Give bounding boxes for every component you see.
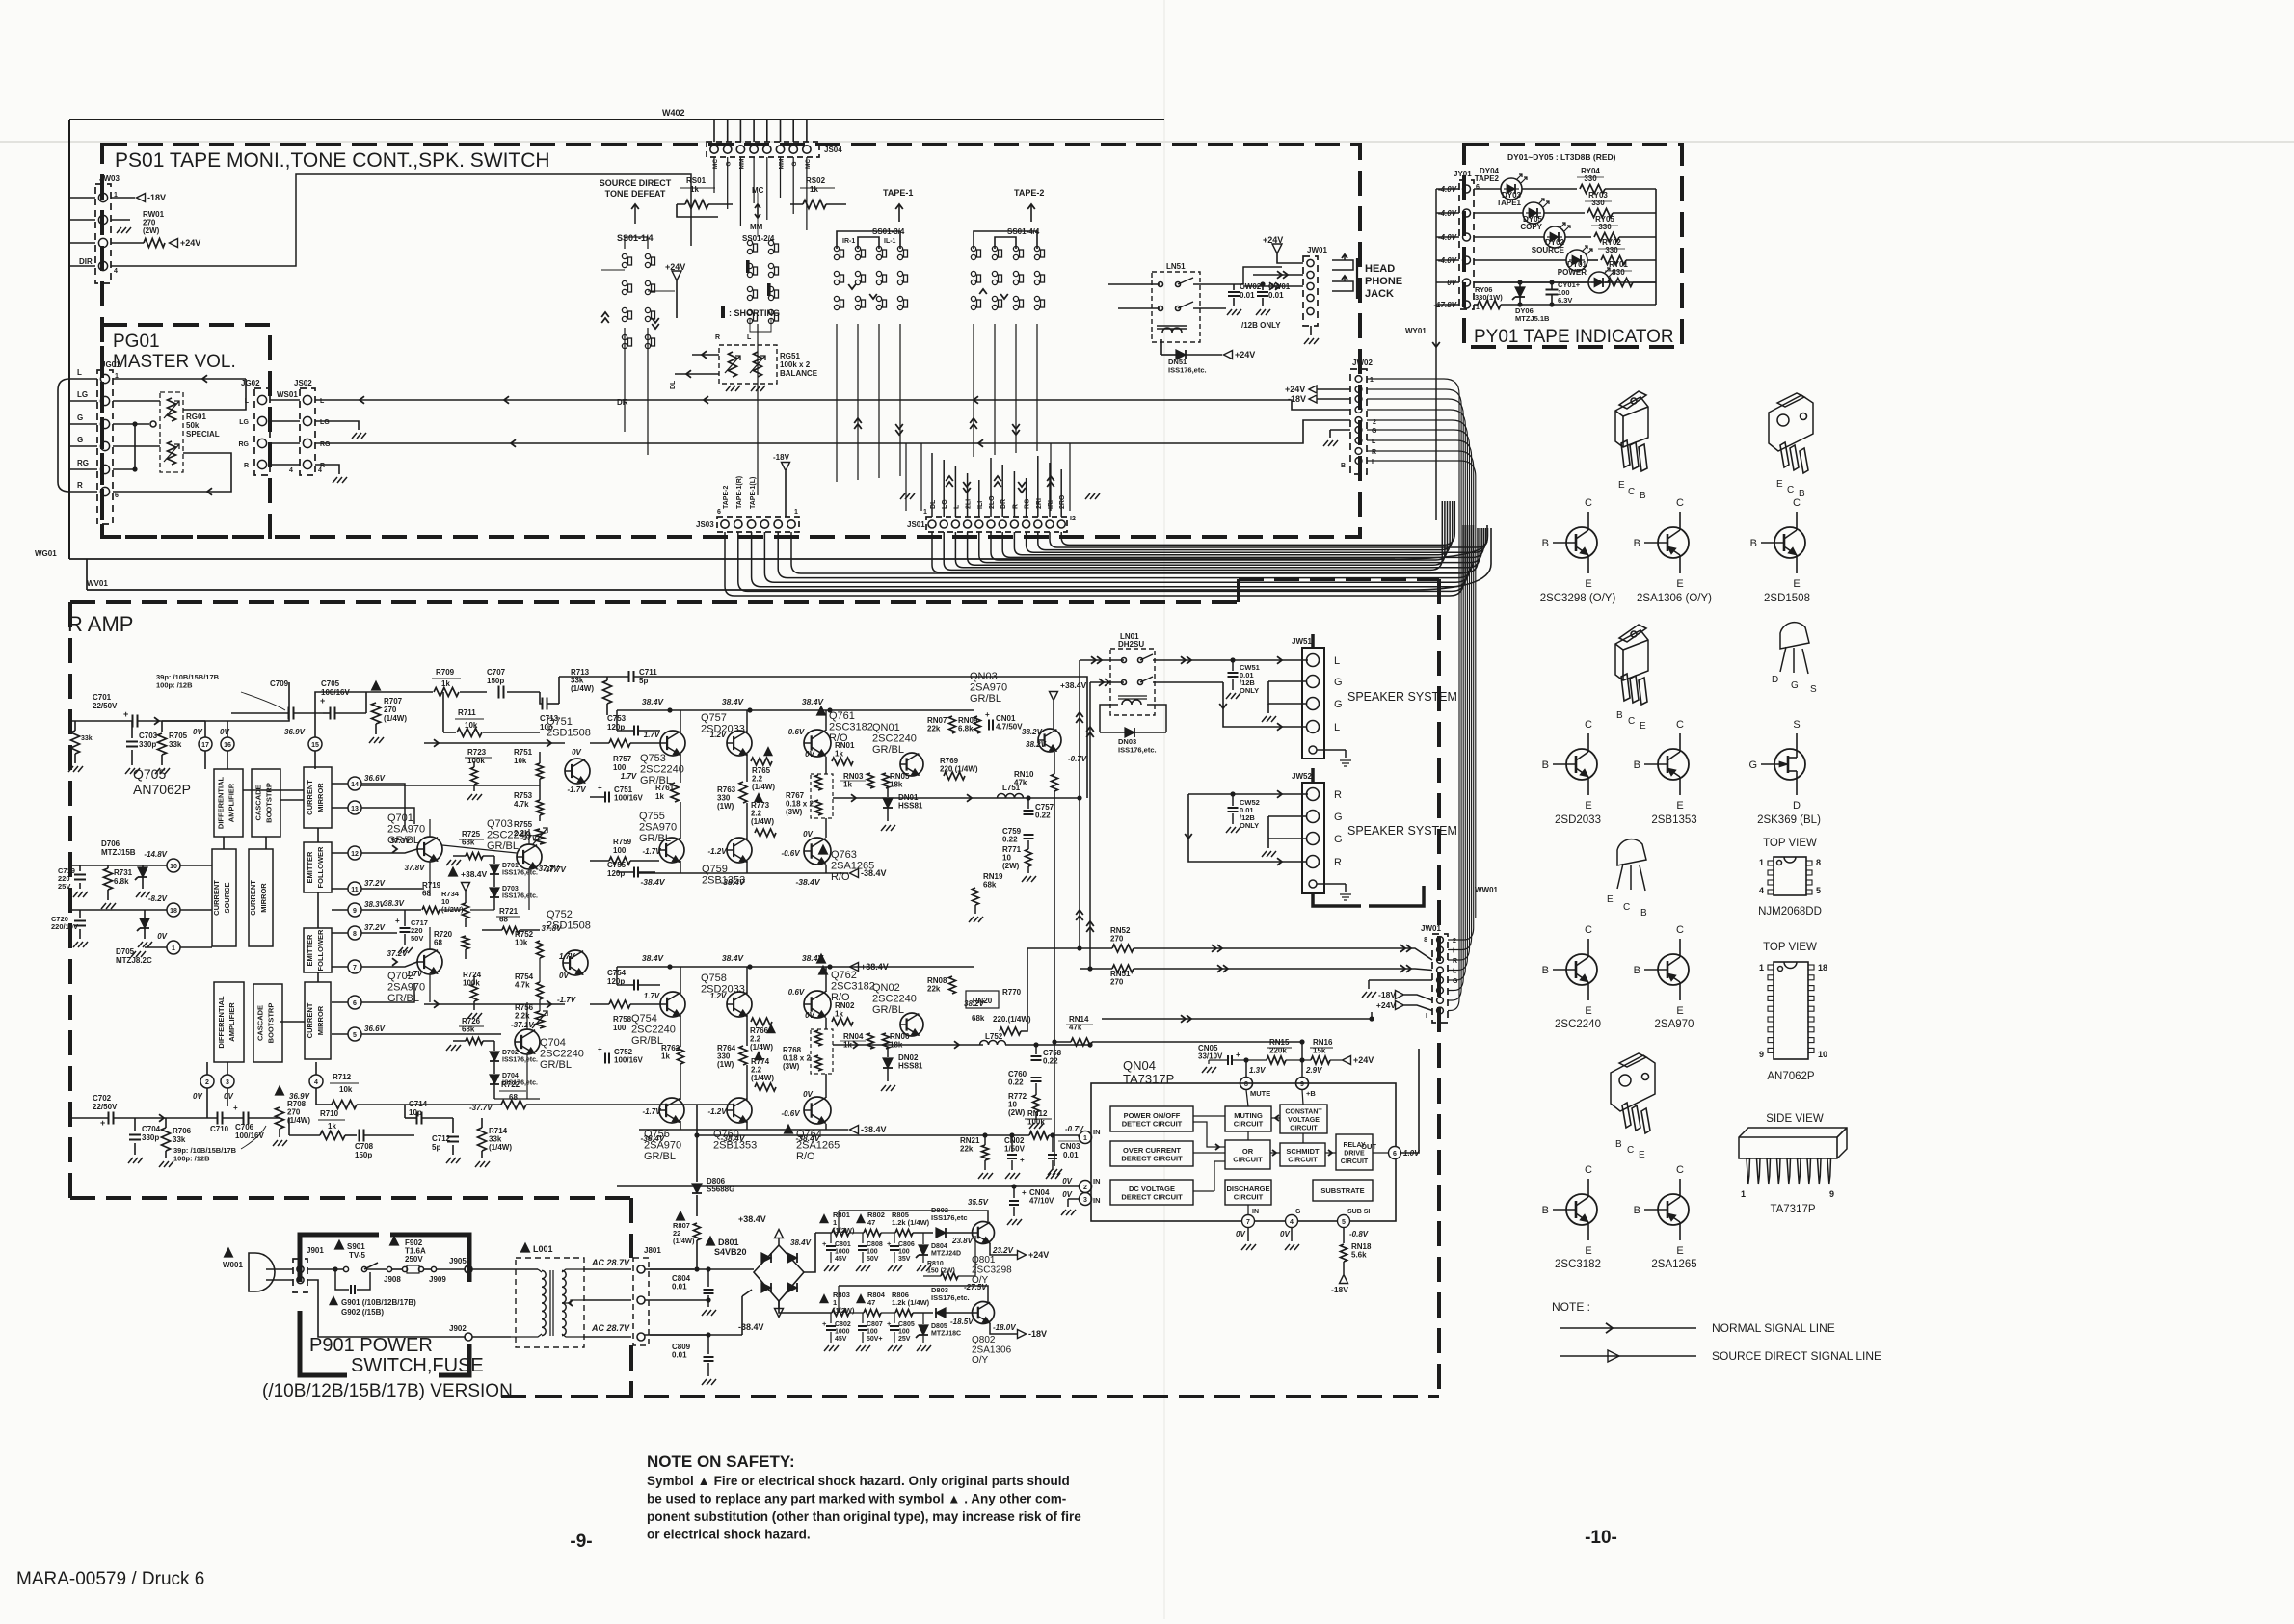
transistor QN01 xyxy=(900,753,923,776)
QN04 block schmidt circuit xyxy=(1280,1143,1325,1166)
symbol 2SA1265 xyxy=(1658,1194,1689,1225)
svg-text:4: 4 xyxy=(289,467,293,474)
svg-text:C: C xyxy=(1585,497,1592,509)
svg-text:BALANCE: BALANCE xyxy=(780,369,818,378)
svg-text:(1W): (1W) xyxy=(717,1060,734,1069)
svg-text:SOURCE: SOURCE xyxy=(1532,246,1565,254)
svg-text:-1.7V: -1.7V xyxy=(642,1107,661,1116)
wire rail +38.4V xyxy=(617,966,974,968)
transistor Q757 xyxy=(727,731,752,756)
svg-text:0V: 0V xyxy=(805,1011,814,1020)
svg-text:25V: 25V xyxy=(898,1336,911,1343)
svg-text:150p: 150p xyxy=(355,1151,372,1159)
resistor R707 270 1/4W xyxy=(372,681,381,690)
IC block emitter follower lower xyxy=(304,928,332,972)
wire pin9 row xyxy=(361,909,421,911)
wire to bus xyxy=(1613,212,1656,214)
transistor Q755 xyxy=(659,838,684,863)
svg-text:1: 1 xyxy=(1759,963,1764,972)
svg-text:HEAD: HEAD xyxy=(1365,263,1395,275)
PS01 board dashed border xyxy=(102,145,1360,537)
svg-text:(3W): (3W) xyxy=(786,808,803,816)
svg-text:1: 1 xyxy=(1741,1189,1746,1199)
package NJM2068DD DIP-8 xyxy=(1774,857,1806,895)
wire AC bottom to bridge xyxy=(741,1296,743,1335)
svg-text:100/16V: 100/16V xyxy=(614,1056,643,1065)
wire feedback to output xyxy=(665,677,1087,798)
resistor R731 6.8k xyxy=(104,868,113,890)
transformer mid tap xyxy=(562,1300,583,1303)
svg-text:6: 6 xyxy=(115,493,119,499)
svg-text:330: 330 xyxy=(1612,268,1625,277)
svg-text:50k: 50k xyxy=(186,421,200,430)
wire JS04 pin drops xyxy=(713,157,715,193)
svg-text:ISS176,etc.: ISS176,etc. xyxy=(502,870,538,877)
svg-text:3: 3 xyxy=(226,1079,229,1086)
capacitor C711 5p xyxy=(628,671,630,682)
wire collectors to rail upper xyxy=(680,710,681,732)
svg-text:-10-: -10- xyxy=(1585,1528,1617,1548)
wire WV01 bus xyxy=(87,589,1409,591)
resistor RN14 node wire xyxy=(1052,1039,1056,1044)
svg-text:+38.4V: +38.4V xyxy=(461,869,488,879)
svg-text:250V: 250V xyxy=(405,1255,423,1264)
svg-text:TAPE-1: TAPE-1 xyxy=(883,188,913,198)
wires RG51 to switches xyxy=(692,354,719,356)
svg-text:WW01: WW01 xyxy=(1475,886,1499,894)
svg-text:47: 47 xyxy=(867,1218,875,1227)
wire JW52 R2 xyxy=(1188,794,1307,862)
wire rail 38.4V xyxy=(617,709,974,711)
capacitor CW02 0.01 xyxy=(1228,291,1240,293)
symbol 2SD1508 xyxy=(1774,527,1805,558)
symbol 2SB1353 xyxy=(1658,749,1689,780)
svg-text:68: 68 xyxy=(434,939,442,947)
svg-text:0.22: 0.22 xyxy=(1043,1057,1058,1066)
svg-text:MASTER VOL.: MASTER VOL. xyxy=(113,352,236,372)
svg-text:330: 330 xyxy=(1605,246,1618,254)
IC block cascade bootstrp upper xyxy=(252,769,280,837)
svg-text:Q758: Q758 xyxy=(701,972,727,984)
resistor R765 2.2 1/4W xyxy=(751,758,772,765)
svg-text:J909: J909 xyxy=(429,1275,446,1284)
svg-text:C709: C709 xyxy=(270,679,289,688)
capacitor C712 5p xyxy=(447,1136,459,1138)
svg-text:37.2V: 37.2V xyxy=(364,879,386,888)
svg-text:JG01: JG01 xyxy=(101,360,120,369)
svg-text:1.7V: 1.7V xyxy=(644,992,660,1000)
svg-text:Q754: Q754 xyxy=(631,1013,657,1025)
svg-text:2SC3298 (O/Y): 2SC3298 (O/Y) xyxy=(1540,593,1616,604)
label G901 G902 xyxy=(330,1297,337,1305)
svg-text:TAPE-2: TAPE-2 xyxy=(723,486,730,509)
wire JG01 input G xyxy=(69,445,97,447)
svg-text:E: E xyxy=(1793,578,1800,590)
wire JG01 input LG xyxy=(69,400,97,402)
svg-text:R712: R712 xyxy=(333,1073,352,1081)
IC internal wires xyxy=(243,789,304,791)
svg-text:2SC2240: 2SC2240 xyxy=(1555,1019,1601,1030)
wire 0V row xyxy=(1474,281,1492,283)
svg-text:E: E xyxy=(1639,1150,1645,1160)
svg-text:GR/BL: GR/BL xyxy=(631,1035,663,1047)
svg-text:DETECT CIRCUIT: DETECT CIRCUIT xyxy=(1122,1120,1183,1129)
svg-text:-8.2V: -8.2V xyxy=(148,894,168,903)
svg-text:OUT: OUT xyxy=(1361,1142,1376,1151)
wire pin6 to relay riser xyxy=(1401,1049,1419,1153)
wire long L signal line xyxy=(315,400,1350,410)
wire to pin2 xyxy=(617,1185,1079,1187)
connector JG01 xyxy=(97,370,113,524)
svg-text:+: + xyxy=(598,1045,602,1053)
svg-text:8: 8 xyxy=(1244,1081,1248,1088)
svg-text:BOOTSTRP: BOOTSTRP xyxy=(267,1003,276,1044)
svg-text:38.2V: 38.2V xyxy=(1026,740,1047,749)
JW51 stub xyxy=(1311,634,1315,648)
svg-text:MTZJ5.1B: MTZJ5.1B xyxy=(1515,314,1550,323)
connector JW51 xyxy=(1302,648,1324,759)
wire left bus arcs xyxy=(58,379,69,492)
IC block cascade bootstrp lower xyxy=(253,984,282,1062)
svg-text:B: B xyxy=(1634,965,1640,976)
resistor RY05 330 xyxy=(1565,236,1591,238)
svg-text:C: C xyxy=(1585,924,1592,936)
wire lower output node xyxy=(833,1044,983,1046)
resistor RY06 330(1W) xyxy=(1478,301,1501,309)
labels -18V +24V JW01 xyxy=(1396,991,1404,999)
symbol 2SC3182 xyxy=(1566,1194,1597,1225)
diode D806 S5688G xyxy=(696,1105,698,1182)
grounds near JS01 xyxy=(900,493,905,499)
svg-text:38.4V: 38.4V xyxy=(802,697,825,706)
wires JY01 feed xyxy=(1436,188,1459,190)
svg-text:C: C xyxy=(1627,1145,1634,1156)
svg-text:2SD1508: 2SD1508 xyxy=(1764,593,1810,604)
svg-text:LG: LG xyxy=(942,499,948,509)
svg-text:S: S xyxy=(1793,719,1800,731)
svg-text:330(1W): 330(1W) xyxy=(1475,293,1503,302)
transistor Q704 xyxy=(515,1029,540,1054)
svg-text:NOTE :: NOTE : xyxy=(1552,1300,1590,1314)
package 2SD2033 TO-220 xyxy=(1619,625,1646,642)
svg-text:45V: 45V xyxy=(835,1256,847,1263)
svg-text:R706: R706 xyxy=(173,1127,192,1135)
svg-text:330p: 330p xyxy=(139,740,156,749)
plug W001 xyxy=(225,1248,233,1257)
svg-text:0V: 0V xyxy=(1236,1230,1245,1238)
wire bridge AC sides xyxy=(650,1268,697,1270)
svg-text:+: + xyxy=(985,710,990,719)
wire JG01 input RG xyxy=(69,468,97,470)
svg-text:1: 1 xyxy=(794,509,798,516)
wire pin5 run xyxy=(361,1033,501,1035)
svg-text:TAPE1: TAPE1 xyxy=(1497,199,1522,207)
QN04 pin 8 xyxy=(1240,1078,1253,1090)
transistor Q752 xyxy=(563,950,588,975)
svg-text:D702: D702 xyxy=(502,1050,519,1056)
svg-text:100p: /12B: 100p: /12B xyxy=(156,681,193,690)
svg-text:PS01 TAPE MONI.,TONE CONT.,S: PS01 TAPE MONI.,TONE CONT.,SPK. SWITCH xyxy=(115,149,550,172)
svg-text:TAPE-1(L): TAPE-1(L) xyxy=(750,477,757,509)
capacitor CW01 0.01 xyxy=(1257,291,1268,293)
wire to pin2/3 xyxy=(206,1088,208,1118)
svg-text:0.22: 0.22 xyxy=(1008,1078,1024,1087)
svg-text:-1.7V: -1.7V xyxy=(567,785,586,794)
svg-text:1k: 1k xyxy=(843,781,852,789)
svg-text:MTZJ15B: MTZJ15B xyxy=(101,848,136,857)
svg-text:2RI: 2RI xyxy=(1036,498,1043,509)
svg-text:QN02: QN02 xyxy=(872,982,900,994)
PG01 board dashed border xyxy=(102,325,270,537)
svg-text:16: 16 xyxy=(224,742,231,749)
transistor Q801 2SC3298 O/Y xyxy=(973,1222,995,1244)
svg-text:22/50V: 22/50V xyxy=(93,702,118,710)
IC block emitter follower upper xyxy=(304,842,332,892)
svg-text:6: 6 xyxy=(1476,184,1480,191)
svg-text:B: B xyxy=(1634,759,1640,771)
svg-text:CIRCUIT: CIRCUIT xyxy=(1233,1156,1263,1164)
svg-text:B: B xyxy=(1616,710,1623,721)
wire WV01 rise xyxy=(1409,528,1491,590)
wire R770 to RN52 node xyxy=(1021,948,1027,1031)
svg-text:33k: 33k xyxy=(169,740,182,749)
legend normal signal line xyxy=(1560,1327,1696,1329)
svg-text:C708: C708 xyxy=(355,1142,374,1151)
svg-text:+38.4V: +38.4V xyxy=(861,962,889,972)
wire bundle JW02 to JW01 cable xyxy=(1367,379,1459,1011)
svg-text:0V: 0V xyxy=(559,972,569,980)
svg-text:9: 9 xyxy=(1759,1050,1764,1059)
transistor QN02 xyxy=(900,1013,923,1036)
svg-text:Q705: Q705 xyxy=(133,766,166,782)
svg-text:1k: 1k xyxy=(441,679,450,688)
svg-text:4: 4 xyxy=(314,1079,318,1086)
svg-text:1k: 1k xyxy=(661,1052,670,1061)
svg-text:G: G xyxy=(1334,677,1343,688)
svg-text:68: 68 xyxy=(509,1093,518,1102)
IC pins left column xyxy=(167,859,180,872)
svg-text:CURRENT: CURRENT xyxy=(306,1002,314,1038)
svg-text:4: 4 xyxy=(1290,1219,1294,1226)
svg-text:+: + xyxy=(598,784,602,792)
svg-text:C: C xyxy=(1787,485,1794,495)
svg-text:9: 9 xyxy=(353,908,357,915)
svg-text:100p: /12B: 100p: /12B xyxy=(173,1155,210,1163)
wire LN01 out R down xyxy=(1153,681,1223,683)
capacitor C801 1000 45V xyxy=(826,1245,836,1247)
svg-text:2SC2240: 2SC2240 xyxy=(872,733,917,745)
ground JW02 G xyxy=(1330,429,1350,431)
svg-text:-9-: -9- xyxy=(570,1531,592,1552)
svg-text:HSS81: HSS81 xyxy=(898,802,923,811)
wires into LN51 xyxy=(1108,283,1160,285)
svg-text:WG01: WG01 xyxy=(35,549,57,558)
svg-text:10p: 10p xyxy=(409,1108,422,1117)
resistor RW01 270 2W xyxy=(111,219,130,221)
svg-text:-18V: -18V xyxy=(147,193,166,202)
svg-text:(2W): (2W) xyxy=(1008,1108,1026,1117)
wire output node upper xyxy=(833,797,1080,799)
svg-text:MUTE: MUTE xyxy=(1250,1089,1270,1098)
svg-text:10: 10 xyxy=(1818,1050,1827,1059)
svg-text:47: 47 xyxy=(867,1298,875,1307)
svg-text:2SD2033: 2SD2033 xyxy=(1555,814,1601,826)
svg-text:C702: C702 xyxy=(93,1094,112,1103)
svg-text:33k: 33k xyxy=(81,735,93,742)
svg-text:1k: 1k xyxy=(835,1010,843,1019)
svg-text:(1/4W): (1/4W) xyxy=(384,714,407,723)
svg-text:TOP VIEW: TOP VIEW xyxy=(1763,838,1817,849)
svg-text:36.6V: 36.6V xyxy=(364,1025,386,1033)
capacitor C710 xyxy=(217,1112,219,1125)
resistor R772 10 2W xyxy=(1033,1095,1040,1112)
resistor R766 2.2 1/4W xyxy=(751,1018,772,1025)
wire LG ground xyxy=(315,421,359,430)
svg-text:R758: R758 xyxy=(613,1015,632,1024)
svg-text:D804: D804 xyxy=(931,1243,947,1250)
svg-text:SPEAKER SYSTEM: SPEAKER SYSTEM xyxy=(1347,824,1457,838)
wire pin12 to base Q701 xyxy=(361,849,417,853)
svg-text:5p: 5p xyxy=(432,1143,440,1152)
capacitor C714 10p xyxy=(416,1112,418,1125)
svg-text:G: G xyxy=(1453,978,1458,985)
svg-text:G: G xyxy=(77,413,83,422)
paper fold lines xyxy=(0,141,2294,143)
svg-text:0V: 0V xyxy=(1062,1177,1072,1185)
svg-text:1.2V: 1.2V xyxy=(710,731,727,739)
wires relay to headphone jack xyxy=(1243,267,1282,284)
package 2SK369 TO-92 xyxy=(1780,623,1809,649)
svg-text:(1/4W): (1/4W) xyxy=(287,1116,310,1125)
svg-text:+24V: +24V xyxy=(1376,1000,1396,1010)
svg-text:TONE DEFEAT: TONE DEFEAT xyxy=(605,189,666,199)
svg-text:E: E xyxy=(1585,800,1591,812)
svg-text:+24V: +24V xyxy=(1028,1250,1049,1260)
svg-text:ISS176,etc: ISS176,etc xyxy=(931,1213,968,1222)
svg-text:IN: IN xyxy=(1093,1128,1101,1136)
svg-text:C802: C802 xyxy=(835,1321,851,1328)
wire bottom J902 xyxy=(307,1280,466,1337)
package 2SC3298 TO-220F xyxy=(1619,391,1646,409)
capacitor C708 150p xyxy=(359,1130,360,1142)
svg-text:38.4V: 38.4V xyxy=(722,953,745,963)
svg-text:CIRCUIT: CIRCUIT xyxy=(1290,1126,1318,1132)
transistor Q762 (warn) xyxy=(804,991,831,1018)
svg-text:5.6k: 5.6k xyxy=(1351,1251,1367,1260)
svg-text:6.8k: 6.8k xyxy=(958,725,974,733)
svg-text:(1W): (1W) xyxy=(717,802,734,811)
svg-text:DH2SU: DH2SU xyxy=(1118,640,1144,649)
transistor Q759 xyxy=(727,838,752,863)
svg-text:C: C xyxy=(1793,497,1801,509)
svg-text:R761: R761 xyxy=(655,784,675,792)
svg-text:270: 270 xyxy=(384,706,397,714)
svg-text:270: 270 xyxy=(1110,935,1124,944)
svg-text:EMITTER: EMITTER xyxy=(306,934,314,966)
diode DN03 ISS176 xyxy=(1100,705,1118,732)
svg-text:TOP VIEW: TOP VIEW xyxy=(1763,942,1817,953)
svg-text:ILI: ILI xyxy=(977,501,984,509)
svg-text:22/50V: 22/50V xyxy=(93,1103,118,1111)
diode DN01 HSS81 xyxy=(883,798,893,808)
diode D701 xyxy=(490,865,499,874)
wire to bus xyxy=(1605,188,1656,190)
svg-text:0.6V: 0.6V xyxy=(788,988,805,997)
svg-text:0V: 0V xyxy=(572,748,581,757)
svg-text:2SA970: 2SA970 xyxy=(644,1140,681,1152)
svg-text:C703: C703 xyxy=(139,732,158,740)
transformer L001 xyxy=(521,1243,530,1252)
svg-text:G902 (/15B): G902 (/15B) xyxy=(341,1308,384,1317)
svg-text:2SB1353: 2SB1353 xyxy=(702,875,745,887)
svg-text:FOLLOWER: FOLLOWER xyxy=(316,929,325,971)
relay LN01 coil xyxy=(1122,700,1141,705)
svg-text:AMPLIFIER: AMPLIFIER xyxy=(227,1002,236,1042)
svg-text:CURRENT: CURRENT xyxy=(212,880,221,916)
svg-text:2SC3298: 2SC3298 xyxy=(972,1265,1012,1276)
svg-text:JS01: JS01 xyxy=(907,520,925,529)
svg-text:(1/4W): (1/4W) xyxy=(751,1074,774,1082)
wire pin7 to Q702 xyxy=(361,962,417,967)
svg-text:-18V: -18V xyxy=(1028,1329,1047,1339)
svg-text:10: 10 xyxy=(170,864,177,870)
svg-text:(1/4W): (1/4W) xyxy=(752,783,775,791)
svg-text:0V: 0V xyxy=(1280,1230,1290,1238)
svg-text:14: 14 xyxy=(351,782,359,788)
svg-text:MC: MC xyxy=(805,159,812,169)
svg-text:2SA970: 2SA970 xyxy=(1655,1019,1694,1030)
connector JS03 xyxy=(717,517,799,532)
svg-text:2SA970: 2SA970 xyxy=(387,982,425,994)
svg-text:JACK: JACK xyxy=(1365,288,1394,300)
wire pin14 to Q701 region xyxy=(361,784,405,829)
svg-text:GR/BL: GR/BL xyxy=(540,1059,572,1071)
svg-text:B: B xyxy=(1542,759,1549,771)
svg-text:-37.1V: -37.1V xyxy=(511,1021,534,1029)
svg-text:PY01 TAPE INDICATOR: PY01 TAPE INDICATOR xyxy=(1474,327,1674,347)
legend source direct signal line xyxy=(1560,1355,1696,1357)
capacitor C802 1000 45V xyxy=(826,1325,836,1327)
svg-text:-38.4V: -38.4V xyxy=(795,877,820,887)
svg-text:R723: R723 xyxy=(467,748,487,757)
connector JW03 xyxy=(95,184,111,283)
svg-text:CURRENT: CURRENT xyxy=(249,880,257,916)
svg-text:DL: DL xyxy=(670,380,677,389)
transistor Q754 xyxy=(660,992,685,1017)
svg-text:R711: R711 xyxy=(458,708,476,717)
svg-text:D705: D705 xyxy=(116,947,135,956)
resistor R771 10 2W xyxy=(1026,849,1032,866)
arrow tone defeat xyxy=(634,204,636,224)
vertical x1094 to ground xyxy=(1054,1042,1055,1166)
svg-text:or electrical shock hazard.: or electrical shock hazard. xyxy=(647,1528,811,1542)
resistor R774 2.2 1/4W xyxy=(755,1083,776,1091)
capacitor C720 220/10V xyxy=(74,920,86,922)
wire W402 bundle xyxy=(713,120,715,142)
wire JW03 input xyxy=(69,242,95,244)
svg-text:TV-5: TV-5 xyxy=(349,1251,365,1260)
svg-text:Q704: Q704 xyxy=(540,1037,566,1049)
resistor R801 1 (1/2W) xyxy=(820,1215,828,1223)
connector JW01 headphone xyxy=(1303,256,1318,326)
resistor R761 1k xyxy=(671,783,679,802)
svg-text:Q755: Q755 xyxy=(639,811,665,822)
JW51 small pin ground xyxy=(1317,749,1346,751)
svg-text:+: + xyxy=(1020,1156,1025,1164)
capacitor C706 100/16V xyxy=(243,1112,245,1125)
svg-text:-0.8V: -0.8V xyxy=(1349,1230,1369,1238)
svg-text:1.2k (1/4W): 1.2k (1/4W) xyxy=(892,1218,930,1227)
